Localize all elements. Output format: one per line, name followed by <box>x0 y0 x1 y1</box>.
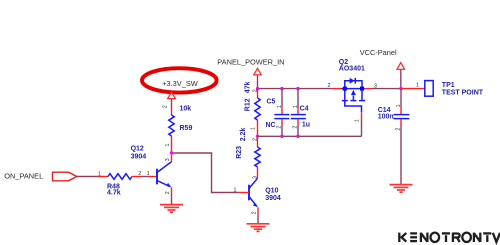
svg-text:3904: 3904 <box>265 195 281 202</box>
capacitor C4 <box>291 115 306 119</box>
junction C5 bottom <box>280 135 283 138</box>
svg-text:1: 1 <box>147 171 150 177</box>
svg-text:ON_PANEL: ON_PANEL <box>4 172 43 181</box>
pin 2 of R23 <box>257 136 259 147</box>
Q2 substrate arrow <box>351 90 356 95</box>
svg-text:R59: R59 <box>180 125 193 132</box>
pin 2 of Q10 (emitter) <box>257 207 259 215</box>
svg-text:47k: 47k <box>244 81 251 93</box>
pin 2 of C5 <box>281 119 283 125</box>
svg-text:2: 2 <box>253 138 259 141</box>
svg-text:1: 1 <box>354 119 360 122</box>
svg-text:1: 1 <box>165 144 171 147</box>
svg-text:Q10: Q10 <box>265 188 278 195</box>
svg-text:C5: C5 <box>267 98 276 105</box>
wire C5 bottom <box>281 125 283 136</box>
wire bottom rail (gate net) <box>258 135 362 137</box>
wire C4 top <box>297 89 299 108</box>
mosfet Q2 <box>342 81 366 113</box>
pin 2 of R48 <box>132 176 141 178</box>
svg-text:2: 2 <box>138 171 141 177</box>
Q2 body diode <box>350 78 355 84</box>
pin 1 of Q10 (base) <box>239 192 250 194</box>
wire Q2 drain to VCC junction <box>372 88 401 90</box>
svg-text:3: 3 <box>165 158 171 161</box>
transistor Q12 <box>157 162 171 187</box>
ground under Q10 <box>247 224 270 232</box>
wire Q2 gate to bottom rail <box>361 120 363 137</box>
svg-text:1: 1 <box>396 104 402 107</box>
resistor R12 <box>255 98 260 120</box>
svg-text:2: 2 <box>251 211 257 214</box>
power symbol +3.3V_SW <box>168 92 176 98</box>
pin 2 of C4 <box>297 119 299 125</box>
junction C4 top <box>296 87 299 90</box>
svg-text:TEST POINT: TEST POINT <box>442 89 484 96</box>
pin 1 of Q2 (gate) <box>361 112 363 119</box>
pin 1 of C14 <box>400 108 402 115</box>
wire R48 to Q12 base <box>141 176 148 178</box>
svg-text:1u: 1u <box>302 122 310 129</box>
wire VCC symbol down <box>400 69 402 88</box>
wire C14 to ground <box>400 125 402 184</box>
wire C5 top <box>281 89 283 108</box>
resistor R23 <box>255 147 260 167</box>
pin 1 of C4 <box>297 108 299 115</box>
wire VCC node to C14 <box>400 89 402 108</box>
svg-text:1: 1 <box>234 188 237 194</box>
wire power to R59 <box>171 99 173 108</box>
pin 1 of R23 / pin 3 of Q10 <box>257 167 259 178</box>
pin 2 of R12 <box>257 89 259 98</box>
svg-text:R23: R23 <box>236 146 243 159</box>
watermark logo KENOTRONTV <box>399 233 500 242</box>
svg-text:2.2k: 2.2k <box>240 128 247 142</box>
ground under Q12 <box>160 205 183 213</box>
svg-text:4.7k: 4.7k <box>107 190 121 197</box>
svg-text:AO3401: AO3401 <box>339 65 365 72</box>
svg-text:PANEL_POWER_IN: PANEL_POWER_IN <box>217 57 284 66</box>
svg-text:1: 1 <box>251 127 257 130</box>
pin 3 of Q2 (drain) <box>365 88 373 90</box>
svg-text:TP1: TP1 <box>442 82 455 89</box>
svg-text:R12: R12 <box>245 98 252 111</box>
svg-text:1: 1 <box>293 105 299 108</box>
pin 1 of C5 <box>281 108 283 115</box>
power symbol PANEL_POWER_IN <box>254 68 261 75</box>
pin 2 of R59 <box>171 108 173 115</box>
pin 1 of R48 <box>98 176 109 178</box>
Q2 terminal dots <box>343 87 347 91</box>
svg-text:1: 1 <box>416 82 419 88</box>
power symbol VCC-Panel <box>397 63 405 70</box>
pin 1 of R59 <box>171 136 173 153</box>
pin 2 of Q12 (emitter) <box>171 187 173 193</box>
wire top rail <box>258 88 332 90</box>
transistor Q10 <box>249 178 258 207</box>
off-page connector ON_PANEL <box>53 172 77 181</box>
wire Q12 emitter to ground <box>171 194 173 205</box>
svg-text:Q12: Q12 <box>131 146 144 153</box>
pin 2 of Q2 (source) <box>331 88 341 90</box>
svg-text:1: 1 <box>98 171 101 177</box>
svg-text:+3.3V_SW: +3.3V_SW <box>162 79 198 88</box>
svg-text:1: 1 <box>277 105 283 108</box>
svg-text:100n: 100n <box>378 114 394 121</box>
annotation red ellipse <box>142 68 217 92</box>
junction at R59/Q12 <box>170 151 173 154</box>
resistor R48 <box>108 174 132 180</box>
ground under C14 <box>390 185 413 193</box>
pin 1 of R12 <box>257 120 259 135</box>
svg-text:2: 2 <box>252 89 258 92</box>
wire C4 bottom <box>297 125 299 136</box>
capacitor C14 <box>393 115 409 119</box>
pin 1 of Q12 (base) <box>149 176 158 178</box>
wire Q12 collector node to Q10 base <box>172 153 239 193</box>
junction VCC-Panel node <box>399 87 402 90</box>
svg-text:2: 2 <box>328 83 331 89</box>
capacitor C5 <box>274 115 289 119</box>
pin 3 of Q12 (collector) <box>171 155 173 163</box>
junction PANEL_POWER_IN / R12 <box>256 87 259 90</box>
svg-text:2: 2 <box>162 105 168 108</box>
wire Q10 emitter to ground <box>257 216 259 224</box>
resistor R59 <box>169 115 174 136</box>
test point TP1 <box>425 81 433 97</box>
pin 2 of C14 <box>400 119 402 125</box>
svg-text:3904: 3904 <box>131 153 147 160</box>
junction C4 bottom <box>296 135 299 138</box>
svg-text:10k: 10k <box>180 106 192 113</box>
wire ON_PANEL to R48 <box>77 176 98 178</box>
svg-text:NC: NC <box>266 122 276 129</box>
wire power to rail <box>257 75 259 89</box>
svg-text:C4: C4 <box>300 106 309 113</box>
junction C5 top <box>280 87 283 90</box>
svg-text:VCC-Panel: VCC-Panel <box>360 48 397 57</box>
svg-text:2: 2 <box>165 191 171 194</box>
junction R12/R23 gate node <box>256 135 259 138</box>
pin 1 of TP1 <box>402 88 425 90</box>
